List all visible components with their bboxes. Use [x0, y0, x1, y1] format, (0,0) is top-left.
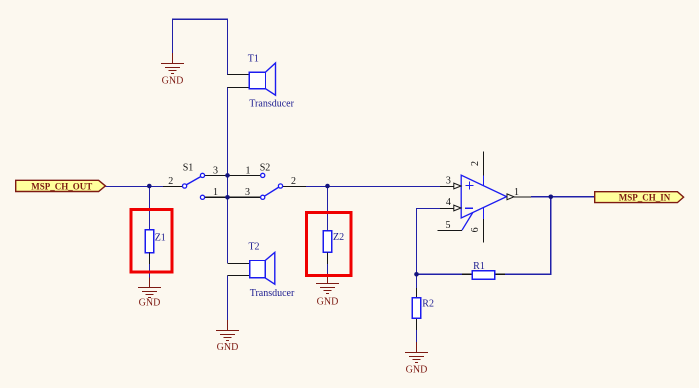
svg-text:Z1: Z1 [155, 233, 166, 244]
transducer T1 pin 1 [228, 74, 250, 76]
ground GND below R2 [405, 342, 428, 363]
op-amp pin 2 lead [483, 152, 485, 176]
wire from op-amp pin 4 leftward [416, 208, 440, 210]
component Z2 top pin [327, 186, 329, 231]
svg-text:S2: S2 [260, 162, 271, 173]
op-amp pin 3 lead and arrow [440, 186, 454, 188]
wire from MSP_CH_OUT flag to S1 pin 2 [106, 186, 164, 188]
transducer T2 pin 2 [228, 275, 250, 277]
wire from R2 bottom toward ground [416, 329, 418, 343]
junction node at Z1 tap [147, 184, 152, 189]
resistor R2 bottom pin [416, 318, 418, 330]
junction node at Z2 tap [325, 184, 330, 189]
junction node at switch top row [225, 173, 230, 178]
svg-text:S1: S1 [183, 162, 194, 173]
svg-text:5: 5 [446, 220, 451, 231]
transducer T1 pin 2 [228, 87, 250, 89]
svg-text:Transducer: Transducer [250, 288, 295, 299]
switch S1 blade [186, 177, 201, 185]
svg-text:GND: GND [162, 76, 184, 87]
wire vertical from node to Z1 [149, 186, 151, 230]
wire vertical down to top-left ground [172, 19, 174, 54]
switch bottom row bar (S1 pin1 to S2 pin3) [205, 196, 261, 198]
svg-text:2: 2 [470, 161, 481, 166]
wire from feedback node down to R2 [416, 274, 418, 288]
junction node at op-amp output [549, 195, 554, 200]
switch S1 pin 2 lead [163, 186, 183, 188]
wire vertical from output node down to R1 [550, 197, 552, 274]
svg-text:GND: GND [406, 365, 428, 376]
svg-text:2: 2 [168, 176, 173, 187]
svg-text:1: 1 [213, 187, 218, 198]
svg-text:3: 3 [213, 165, 218, 176]
component Z1 body [145, 230, 153, 253]
junction node at switch bottom row [225, 195, 230, 200]
resistor R2 top pin [416, 288, 418, 298]
component Z2 body [323, 231, 332, 253]
op-amp plus sign [466, 182, 474, 190]
wire from T2 pin 2 down to ground [227, 276, 229, 322]
wire vertical from pin 4 down to feedback node [416, 208, 418, 274]
svg-text:GND: GND [139, 298, 161, 309]
resistor R1 body [472, 271, 495, 280]
svg-text:3: 3 [446, 175, 451, 186]
svg-text:2: 2 [291, 176, 296, 187]
op-amp pin 6 lead [483, 208, 485, 219]
port MSP_CH_IN [595, 192, 684, 203]
resistor R2 body [412, 298, 420, 319]
op-amp pin 4 lead and arrow [440, 208, 454, 210]
switch terminal circles [183, 173, 283, 199]
port MSP_CH_OUT [16, 180, 106, 191]
transducer T2 pin 1 [228, 263, 250, 265]
wire top horizontal from GND riser to T1 riser [172, 18, 228, 20]
svg-text:1: 1 [246, 165, 251, 176]
op-amp minus sign [465, 207, 473, 209]
svg-text:Z2: Z2 [333, 232, 344, 243]
op-amp pin 5 lead [438, 230, 462, 232]
component Z2 bottom pin [327, 252, 329, 264]
svg-text:T1: T1 [248, 54, 259, 65]
op-amp U1 triangle [461, 175, 506, 218]
ground GND top-left [161, 53, 184, 74]
highlight box around Z2 [306, 212, 351, 275]
resistor R1 right pin [495, 273, 505, 275]
ground GND below Z2 [316, 273, 339, 294]
junction node at feedback divider [414, 272, 419, 277]
svg-text:R2: R2 [422, 299, 434, 310]
svg-text:Transducer: Transducer [249, 99, 294, 110]
ground GND below T2 [216, 320, 239, 341]
wire from S2 pin 2 to op-amp pin 3 [306, 186, 440, 188]
switch S2 pin 2 lead [283, 186, 306, 188]
op-amp output arrow [507, 194, 514, 200]
highlight box around Z1 [131, 209, 172, 271]
wire from R1 right side to output riser [505, 273, 552, 275]
ground GND below Z1 [138, 277, 161, 298]
svg-text:R1: R1 [473, 261, 485, 272]
svg-text:3: 3 [245, 187, 250, 198]
wire from feedback node to R1 left side [416, 273, 462, 275]
svg-text:4: 4 [446, 197, 451, 208]
op-amp pin 1 lead [514, 196, 531, 198]
svg-text:MSP_CH_OUT: MSP_CH_OUT [31, 181, 92, 191]
wire vertical from top horizontal down to T1 pin 1 [227, 19, 229, 76]
wire from op-amp output to MSP_CH_IN flag [531, 196, 595, 198]
op-amp pin 5 slanted link [462, 212, 473, 230]
wire vertical from T1 pin 2 down to switch top row junction [227, 87, 229, 175]
svg-text:MSP_CH_IN: MSP_CH_IN [619, 193, 671, 203]
svg-text:GND: GND [217, 342, 239, 353]
transducer T2 body [250, 252, 275, 284]
resistor R1 left pin [462, 273, 472, 275]
svg-text:1: 1 [514, 187, 519, 198]
switch S2 blade [264, 187, 278, 196]
switch top row bar (S1 pin3 to S2 pin1) [205, 174, 261, 176]
component Z1 bottom pin [149, 253, 151, 264]
svg-text:6: 6 [470, 227, 481, 232]
wire vertical from switch bottom row down to T2 pin 1 [227, 197, 229, 263]
wire between switch rows [227, 175, 229, 197]
svg-text:T2: T2 [248, 242, 259, 253]
svg-text:GND: GND [317, 297, 339, 308]
transducer T1 body [249, 63, 275, 95]
